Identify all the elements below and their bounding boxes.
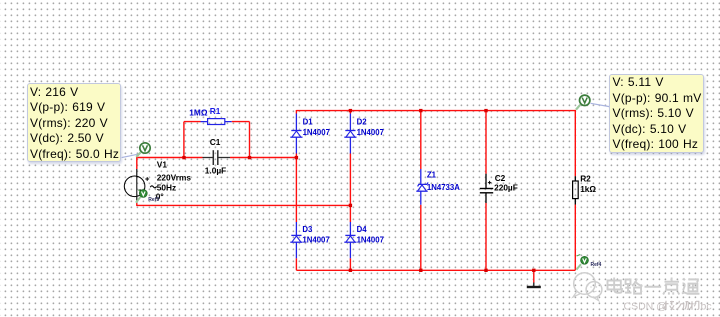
label: refdes V1 bbox=[157, 160, 168, 170]
通 bbox=[683, 278, 685, 280]
svg-text:C2: C2 bbox=[495, 173, 506, 183]
wire: main top wire right of C1 bbox=[230, 157, 297, 159]
svg-text:Ref3: Ref3 bbox=[148, 197, 159, 203]
diode D2 bbox=[344, 114, 356, 154]
wire: AC wire from V1 bottom to D2/D4 node bbox=[136, 204, 350, 206]
svg-text:1.0µF: 1.0µF bbox=[205, 165, 226, 175]
svg-text:220Vrms: 220Vrms bbox=[157, 173, 192, 183]
svg-text:D1: D1 bbox=[303, 117, 314, 126]
zener diode Z1 bbox=[416, 169, 428, 205]
label: refdes D2 bbox=[357, 117, 368, 126]
label: D1 value 1N4007 bbox=[303, 128, 330, 137]
label: C1 value 1.0uF bbox=[205, 165, 226, 175]
label: R2 value 1k ohm bbox=[580, 184, 596, 194]
label: C2 value 220uF bbox=[494, 183, 518, 193]
svg-text:1N4007: 1N4007 bbox=[357, 235, 384, 244]
resistor R1 bbox=[201, 119, 232, 125]
wire: R1 branch left bbox=[184, 122, 201, 158]
wire: R1 branch right bbox=[232, 122, 250, 158]
label: Z1 value 1N4733A bbox=[427, 183, 460, 192]
junction: C2 bottom on negative rail bbox=[484, 269, 487, 272]
label: refdes R2 bbox=[580, 173, 591, 183]
label: R1 value 1M ohm bbox=[189, 108, 208, 118]
probe Ref4 bbox=[576, 255, 601, 270]
junction: D4 bottom on negative rail bbox=[349, 269, 352, 272]
probe Ref3 bbox=[136, 190, 159, 204]
diode D4 bbox=[344, 222, 356, 258]
wire: D2/D4 column red segments bbox=[349, 110, 351, 270]
resistor R2 bbox=[573, 176, 579, 204]
svg-text:R1: R1 bbox=[210, 106, 221, 116]
label: refdes R1 bbox=[210, 106, 221, 116]
svg-text:CSDN @: CSDN @ bbox=[624, 300, 667, 312]
label: refdes C2 bbox=[495, 173, 506, 183]
label: refdes Z1 bbox=[427, 171, 437, 180]
svg-text:bc: bc bbox=[701, 300, 712, 312]
label: D4 value 1N4007 bbox=[357, 235, 384, 244]
junction: R1 right branch on main wire bbox=[248, 156, 251, 159]
junction: Z1 bottom on negative rail bbox=[419, 269, 422, 272]
svg-text:1MΩ: 1MΩ bbox=[189, 108, 208, 118]
watermark text 电路一点通 bbox=[608, 278, 700, 295]
点 bbox=[671, 278, 673, 282]
wire: V1 bottom lead bbox=[136, 203, 138, 205]
svg-text:V1: V1 bbox=[157, 160, 168, 170]
label: refdes D3 bbox=[302, 225, 313, 234]
wire: main top wire left of C1 bbox=[136, 157, 202, 159]
wire: D1/D3 column red segments bbox=[295, 110, 297, 270]
junction: Z1 top on positive rail bbox=[419, 109, 422, 112]
junction: D2 top on positive rail bbox=[349, 109, 352, 112]
watermark CSDN credit bbox=[624, 300, 712, 312]
label: V1 value 220Vrms bbox=[157, 173, 192, 183]
wire: ground stub bbox=[533, 270, 535, 282]
wire: bottom rail bbox=[296, 269, 575, 271]
probe callout line left bbox=[122, 154, 140, 158]
svg-text:D2: D2 bbox=[357, 117, 368, 126]
label: refdes D4 bbox=[357, 225, 368, 234]
capacitor C1 bbox=[203, 150, 231, 165]
probe callout line right bbox=[591, 103, 610, 106]
diode D1 bbox=[290, 114, 302, 154]
junction: R1 left branch on main wire bbox=[182, 156, 185, 159]
svg-text:1N4007: 1N4007 bbox=[303, 128, 330, 137]
label: refdes D1 bbox=[303, 117, 314, 126]
ground bbox=[527, 283, 541, 288]
probe P1 (top of source) bbox=[136, 143, 150, 157]
svg-text:1kΩ: 1kΩ bbox=[580, 184, 596, 194]
label: C2 polarity plus sign bbox=[488, 181, 491, 184]
路 bbox=[626, 280, 631, 285]
svg-text:D3: D3 bbox=[302, 225, 313, 234]
label: V1 value 0 deg bbox=[156, 191, 164, 201]
svg-text:D4: D4 bbox=[357, 225, 368, 234]
wire: C2 column red segments bbox=[485, 110, 487, 270]
probe P3 (output top) bbox=[576, 95, 590, 109]
svg-text:C1: C1 bbox=[210, 137, 221, 147]
label: refdes C1 bbox=[210, 137, 221, 147]
wire: R2 column red segments bbox=[574, 110, 576, 270]
svg-text:1N4007: 1N4007 bbox=[357, 128, 384, 137]
diode D3 bbox=[290, 222, 302, 258]
label: D2 value 1N4007 bbox=[357, 128, 384, 137]
label: V1 value 50Hz bbox=[157, 183, 176, 193]
一 bbox=[645, 286, 662, 288]
junction: AC input at D2/D4 column bbox=[349, 204, 352, 207]
capacitor C2 bbox=[480, 174, 493, 203]
svg-text:R2: R2 bbox=[580, 173, 591, 183]
svg-text:Z1: Z1 bbox=[427, 171, 437, 180]
junction: ground stub on negative rail bbox=[532, 269, 535, 272]
measurement box right bbox=[609, 74, 704, 153]
wire: V1 top lead to main node bbox=[136, 158, 138, 170]
junction: C2 top on positive rail bbox=[484, 109, 487, 112]
svg-text:1N4007: 1N4007 bbox=[302, 235, 329, 244]
电 bbox=[613, 278, 615, 290]
svg-text:1N4733A: 1N4733A bbox=[427, 183, 460, 192]
junction: AC input at D1/D3 column bbox=[295, 156, 298, 159]
wire: Z1 column red segments bbox=[420, 110, 422, 270]
ac source V1 bbox=[124, 169, 156, 203]
wire: top rail bbox=[296, 110, 575, 112]
svg-text:Ref4: Ref4 bbox=[591, 262, 602, 268]
measurement box left bbox=[27, 83, 121, 162]
svg-text:220µF: 220µF bbox=[494, 183, 518, 193]
label: D3 value 1N4007 bbox=[302, 235, 329, 244]
watermark logo bubbles bbox=[573, 273, 602, 301]
